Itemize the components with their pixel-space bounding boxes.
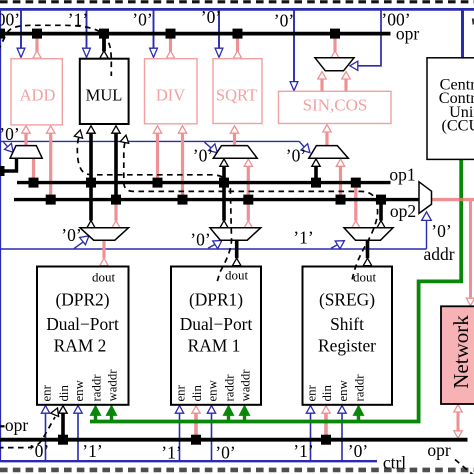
wire DIV result up	[169, 35, 172, 51]
svg-text:Network: Network	[449, 315, 473, 389]
block DIV	[145, 59, 198, 124]
bus bottom opr	[0, 438, 468, 442]
svg-text:enw: enw	[336, 379, 350, 401]
svg-text:(DPR2): (DPR2)	[55, 290, 109, 310]
arrowhead dashed into MUL operand2	[120, 135, 128, 143]
wire green waddr RAM2	[110, 413, 113, 422]
junction op1 SIN.COS mux	[311, 178, 321, 188]
wire green raddr SREG	[357, 413, 360, 422]
wire result down to Network	[469, 200, 472, 299]
wire SREG din	[324, 413, 328, 439]
arrowhead SQRT operand	[230, 126, 238, 133]
svg-text:’0’: ’0’	[190, 230, 210, 250]
wire blue select up to output mux	[426, 219, 428, 249]
arrowhead SIN.COS lower mux op2 input	[336, 159, 344, 166]
arrowhead SQRT mux op2 input	[244, 159, 252, 166]
block Network	[441, 306, 474, 404]
wire blue enable SQRT	[218, 11, 220, 49]
svg-text:’0’: ’0’	[193, 146, 213, 166]
svg-text:’0’: ’0’	[215, 443, 235, 463]
svg-text:’00’: ’00’	[0, 10, 20, 30]
svg-text:’0’: ’0’	[348, 441, 368, 461]
figure bottom dashed border	[0, 468, 474, 473]
arrowhead SREG mux right input	[377, 221, 385, 228]
wire MUL result up	[102, 35, 106, 51]
bus op2	[14, 198, 419, 201]
blue frame left line	[0, 9, 1, 462]
wire op2 down to DPR2 mux	[114, 200, 117, 221]
svg-text:Shift: Shift	[330, 314, 364, 334]
svg-text:’0’: ’0’	[286, 146, 306, 166]
arrowhead MUL result	[100, 51, 108, 58]
arrowhead blue into SQRT mux	[209, 144, 218, 153]
wire blue select diagonal to SIN.COS lower mux	[299, 141, 306, 149]
svg-text:op2: op2	[390, 201, 416, 221]
arrowhead SREG mux left input	[352, 221, 360, 228]
svg-text:raddr: raddr	[353, 374, 367, 402]
arrowhead DIV operand2	[178, 126, 186, 133]
arrowhead Network bottom up	[454, 405, 462, 412]
arrowhead green waddr RAM1	[239, 405, 249, 415]
arrowhead green raddr SREG	[353, 405, 363, 415]
wire blue select diagonal to DPR2 mux	[74, 240, 86, 248]
svg-text:waddr: waddr	[239, 369, 253, 402]
wire DIV operand1 from op1	[156, 133, 159, 183]
wire blue select line 2 (memory mux selects)	[0, 248, 427, 250]
arrowhead blue onto DIV	[150, 48, 158, 57]
svg-text:din: din	[190, 385, 204, 402]
arrowhead SIN.COS bottom operand	[323, 125, 331, 132]
junction opr SREG din	[321, 435, 331, 445]
arrowhead SQRT mux op1 input	[220, 159, 228, 166]
wire blue enable SIN.COS	[293, 11, 295, 83]
junction opr RAM2 din	[58, 435, 68, 445]
wire op1 down to SREG mux	[354, 183, 357, 221]
wire blue enable DIV	[153, 11, 155, 49]
blue frame top line	[0, 8, 474, 11]
arrowhead DPR1 mux right input	[244, 221, 252, 228]
wire opr stub bottom left	[0, 425, 5, 427]
arrowhead blue enw RAM2	[74, 406, 82, 414]
mux SQRT operand select	[213, 146, 257, 159]
wire ADD mux input from op1	[32, 158, 35, 183]
arrowhead ADD result	[33, 51, 41, 58]
arrowhead blue into SIN.COS top mux	[350, 61, 358, 70]
wire green raddr RAM2	[94, 413, 97, 422]
arrowhead blue onto ADD	[17, 48, 25, 57]
wire blue enable ADD	[20, 11, 22, 49]
junction opr RAM1 din	[191, 435, 201, 445]
wire blue select line 1 (FU mux selects)	[0, 140, 299, 142]
junction op1 SREG mux	[351, 178, 361, 188]
svg-text:(CCU): (CCU)	[441, 117, 474, 135]
svg-text:din: din	[320, 385, 334, 402]
blend green over pink crossing	[459, 198, 463, 201]
arrowhead into Network top	[466, 298, 474, 305]
junction SQRT result	[233, 29, 243, 39]
arrowhead green waddr RAM2	[106, 405, 116, 415]
svg-text:dout: dout	[353, 270, 377, 285]
arrowhead blue into output mux	[422, 212, 432, 221]
wire SIN.COS lower mux input from op1	[314, 166, 318, 183]
svg-text:opr: opr	[396, 24, 420, 44]
svg-text:’0’: ’0’	[132, 10, 152, 30]
arrowhead SREG dout	[363, 258, 371, 265]
junction MUL result	[99, 29, 109, 39]
block SQRT	[213, 59, 262, 124]
wire SQRT result up	[236, 35, 239, 51]
wire blue select diagonal to DPR1 mux	[208, 242, 219, 248]
arrowhead RAM2 din	[59, 406, 67, 413]
svg-text:SIN,COS: SIN,COS	[303, 96, 368, 115]
dashed flow into RAM2 din	[0, 417, 55, 448]
arrowhead blue enr SREG	[306, 406, 314, 414]
dashed flow into MUL top	[0, 25, 111, 58]
arrowhead DPR1 mux left input	[220, 221, 228, 228]
svg-text:’0’: ’0’	[201, 7, 221, 27]
arrowhead at SIN.COS top mux right	[342, 72, 350, 79]
svg-text:raddr: raddr	[223, 374, 237, 402]
junction op1 MUL	[86, 178, 96, 188]
wire ADD mux output	[24, 133, 27, 145]
svg-text:’0’: ’0’	[274, 11, 294, 31]
arrowhead SREG din	[322, 406, 330, 413]
wire MUL operand1 from op1	[89, 133, 93, 183]
junction ADD result	[32, 29, 42, 39]
svg-text:DIV: DIV	[156, 85, 185, 104]
wire blue enr SREG	[310, 413, 312, 460]
wire ADD mux external input elbow	[0, 158, 17, 171]
block DPR2	[37, 267, 129, 405]
junction op1 SQRT mux	[219, 178, 229, 188]
svg-text:opr: opr	[5, 415, 29, 435]
svg-text:’1’: ’1’	[293, 228, 313, 248]
bus top result opr	[0, 32, 391, 36]
arrowhead SIN.COS lower mux op1 input	[312, 159, 320, 166]
svg-text:’0’: ’0’	[431, 221, 451, 241]
block SREG	[303, 267, 393, 405]
arrowhead DIV result	[166, 51, 174, 58]
arrowhead blue enr RAM2	[41, 406, 49, 414]
mux DPR1 write select	[210, 228, 261, 240]
mux SIN.COS top select	[315, 58, 354, 71]
wire blue enable MUL	[86, 11, 88, 49]
wire ADD result up	[35, 35, 38, 51]
svg-text:(DPR1): (DPR1)	[189, 290, 243, 310]
arrowhead blue onto MUL	[83, 48, 91, 57]
junction op2 SREG mux	[376, 195, 386, 205]
svg-text:SQRT: SQRT	[216, 85, 257, 104]
arrowhead DPR2 mux right input	[112, 221, 120, 228]
wire RAM1 din	[194, 413, 198, 439]
wire SQRT mux output	[233, 133, 236, 144]
wire blue enr RAM2	[45, 413, 47, 460]
svg-text:waddr: waddr	[106, 369, 120, 402]
wire SIN.COS lower mux input from op2	[339, 166, 342, 199]
wire Network to opr bus double arrow	[457, 411, 460, 432]
mux SREG write select	[344, 228, 393, 240]
svg-text:opr: opr	[427, 440, 451, 460]
wire blue ctrl line	[0, 460, 377, 462]
arrowhead blue into ADD mux	[5, 143, 14, 152]
svg-text:enw: enw	[72, 379, 86, 401]
svg-text:’1’: ’1’	[293, 441, 313, 461]
arrowhead at SIN.COS top mux left	[318, 72, 326, 79]
wire green waddr RAM1	[243, 413, 246, 422]
wire blue select diagonal to SQRT mux	[205, 142, 215, 150]
svg-text:Dual−Port: Dual−Port	[46, 314, 119, 334]
dashed flow inside MUL	[110, 62, 112, 77]
junction op2 DIV	[178, 195, 188, 205]
svg-text:dout: dout	[92, 270, 116, 285]
arrowhead DPR1 dout	[233, 258, 241, 265]
block SIN.COS	[279, 91, 392, 123]
figure top dashed border	[0, 0, 474, 3]
wire output mux result to right edge	[432, 198, 474, 201]
wire blue enw SREG	[341, 413, 343, 460]
wire blue select elbow to SIN.COS top mux	[357, 11, 382, 66]
arrowhead MUL operand2	[112, 126, 120, 133]
mux SIN.COS lower operand select	[309, 146, 349, 159]
wire RAM2 din	[61, 413, 65, 439]
svg-text:’0’: ’0’	[61, 225, 81, 245]
arrowhead SQRT result	[233, 51, 241, 58]
arrowhead blue enr RAM1	[175, 406, 183, 414]
wire blue select diagonal to SREG mux	[331, 243, 341, 249]
svg-text:(SREG): (SREG)	[319, 290, 375, 310]
arrowhead blue onto SQRT	[215, 48, 223, 57]
wire op1 down to DPR2 mux	[89, 183, 93, 221]
wire DPR1 mux to dout	[235, 240, 239, 258]
junction op2 SQRT mux	[243, 195, 253, 205]
svg-text:enr: enr	[40, 384, 54, 401]
arrowhead RAM1 din	[192, 406, 200, 413]
svg-text:dout: dout	[225, 268, 249, 283]
wire blue enw RAM2	[77, 413, 79, 460]
svg-text:RAM 2: RAM 2	[54, 336, 107, 356]
wire SIN.COS lower mux output	[325, 132, 328, 145]
svg-text:raddr: raddr	[90, 374, 104, 402]
svg-text:’1’: ’1’	[68, 10, 88, 30]
arrowhead dashed into RAM2 din	[51, 408, 59, 417]
arrowhead DPR2 dout	[100, 258, 108, 265]
wire DPR2 mux to dout	[102, 240, 105, 258]
svg-text:’1’: ’1’	[161, 443, 181, 463]
svg-text:enw: enw	[206, 379, 220, 401]
mux ADD operand select	[10, 146, 42, 159]
junction left edge on result bus	[0, 29, 5, 39]
arrowhead blue enw RAM1	[207, 406, 215, 414]
svg-text:addr: addr	[423, 244, 454, 264]
arrowhead blue into DPR2 mux	[80, 236, 89, 245]
svg-text:ctrl: ctrl	[383, 453, 406, 473]
wire SQRT mux input from op1 down to DPR1 mux	[222, 166, 226, 220]
arrowhead blue into SREG mux	[335, 241, 344, 249]
junction op2 MUL	[111, 195, 121, 205]
junction op1 ADD mux	[29, 178, 39, 188]
block DPR1	[171, 267, 261, 405]
bus op1	[17, 181, 391, 184]
svg-text:Dual−Port: Dual−Port	[180, 314, 253, 334]
wire DIV operand2 from op2	[181, 133, 184, 199]
arrowhead dashed into MUL operand1	[74, 130, 82, 138]
arrowhead MUL operand1	[87, 126, 95, 133]
svg-text:enr: enr	[305, 384, 319, 401]
arrowhead ADD operand1	[22, 126, 30, 133]
arrowhead green raddr RAM2	[90, 405, 100, 415]
arrowhead DPR2 mux left input	[87, 221, 95, 228]
svg-text:’0’: ’0’	[29, 441, 49, 461]
mux operand output select	[419, 182, 432, 214]
wire SIN.COS top mux to bus	[333, 35, 336, 51]
svg-text:MUL: MUL	[86, 85, 123, 104]
wire ADD operand2 from op2	[49, 133, 52, 199]
arrowhead ADD operand2	[47, 126, 55, 133]
svg-text:ADD: ADD	[20, 85, 56, 104]
dashed flow exit bottom right corner	[455, 460, 474, 474]
dashed flow MUL operand2 loop	[124, 143, 378, 281]
wire SREG mux to dout	[366, 240, 370, 258]
wire op2 down to SREG mux	[379, 200, 383, 221]
arrowhead onto opr bus down	[454, 431, 462, 438]
wire SQRT mux input from op2	[247, 166, 250, 199]
arrowhead green raddr RAM1	[223, 405, 233, 415]
arrowhead DIV operand1	[153, 126, 161, 133]
wire green raddr RAM1	[227, 413, 230, 422]
arrowhead blue onto SIN.COS	[290, 82, 298, 91]
arrowhead blue enw SREG	[338, 406, 346, 414]
wire green addr from CCU	[90, 160, 461, 422]
wire SIN.COS top mux out right	[344, 79, 347, 91]
arrowhead blue into SIN.COS lower mux	[301, 144, 310, 153]
arrowhead blue into DPR1 mux	[213, 241, 222, 249]
svg-text:’0’: ’0’	[0, 124, 20, 144]
wire blue enr RAM1	[179, 413, 181, 460]
wire blue select diagonal to ADD mux	[4, 142, 11, 150]
arrowhead SIN.COS top mux link	[331, 51, 339, 58]
svg-text:Register: Register	[318, 336, 376, 356]
junction square left edge	[0, 166, 5, 176]
wire op2 down to DPR1 mux	[247, 200, 250, 221]
dashed flow MUL operand1 loop	[77, 138, 231, 284]
wire SIN.COS top mux out left	[320, 79, 323, 91]
junction op2 ADD	[46, 195, 56, 205]
svg-text:enr: enr	[174, 384, 188, 401]
tick cut label right edge	[472, 19, 474, 25]
wire blue from top border into CCU	[461, 11, 464, 58]
wire MUL operand2 from op2	[114, 133, 118, 199]
svg-text:op1: op1	[389, 165, 415, 185]
svg-text:’1’: ’1’	[82, 441, 102, 461]
svg-text:din: din	[57, 385, 71, 402]
junction op2 SIN.COS mux	[336, 195, 346, 205]
junction DIV result	[166, 29, 176, 39]
mux DPR2 write select	[80, 228, 129, 240]
junction op1 DIV	[153, 178, 163, 188]
block MUL	[80, 59, 129, 124]
wire blue enw RAM1	[211, 413, 213, 460]
block ADD	[11, 59, 62, 125]
block CCU	[427, 58, 474, 160]
junction SIN.COS result	[330, 29, 340, 39]
svg-text:RAM 1: RAM 1	[188, 336, 241, 356]
